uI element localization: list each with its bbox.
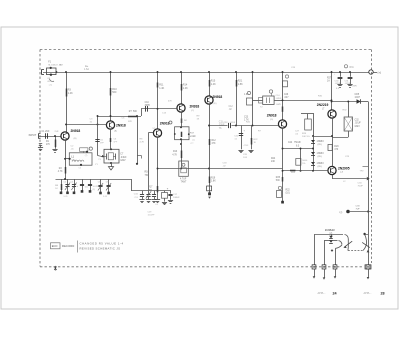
svg-text:APPL -: APPL - [364, 292, 372, 295]
svg-text:R16: R16 [145, 172, 150, 174]
svg-text:C23: C23 [244, 116, 249, 118]
svg-text:(9V): (9V) [318, 144, 322, 146]
svg-text:(.5): (.5) [49, 84, 52, 86]
svg-text:1.4K: 1.4K [211, 83, 216, 86]
svg-text:R22: R22 [286, 189, 291, 191]
svg-text:.02UF: .02UF [230, 122, 236, 124]
svg-text:(3): (3) [93, 189, 96, 191]
svg-text:30PF: 30PF [145, 105, 151, 107]
svg-text:R31: R31 [350, 67, 355, 69]
svg-text:R12: R12 [212, 140, 217, 142]
svg-text:(E): (E) [214, 103, 217, 105]
svg-text:10K 5%: 10K 5% [302, 136, 310, 138]
svg-text:R17: R17 [148, 187, 153, 189]
svg-text:4.7K: 4.7K [58, 171, 63, 173]
svg-text:2N2219: 2N2219 [317, 103, 329, 107]
svg-text:(-): (-) [340, 210, 343, 214]
svg-text:2N918: 2N918 [116, 123, 126, 127]
svg-text:TANT: TANT [181, 181, 187, 184]
svg-text:REVISED SCHEMATIC JS: REVISED SCHEMATIC JS [80, 246, 121, 250]
svg-text:1.4K: 1.4K [68, 92, 73, 95]
svg-text:APPL -: APPL - [318, 292, 326, 295]
svg-text:.02UF: .02UF [345, 83, 351, 85]
svg-text:560: 560 [112, 91, 117, 94]
svg-text:1000PF: 1000PF [148, 214, 156, 216]
svg-text:GMV: GMV [352, 86, 358, 88]
svg-text:(7): (7) [85, 155, 88, 157]
svg-text:GMV: GMV [120, 160, 126, 162]
svg-text:(1): (1) [192, 139, 195, 141]
svg-text:CR5: CR5 [355, 94, 360, 96]
svg-text:INPUT: INPUT [29, 133, 37, 137]
svg-text:2N918: 2N918 [213, 95, 223, 99]
svg-text:1N963: 1N963 [317, 152, 325, 155]
svg-text:(+): (+) [378, 71, 382, 75]
svg-text:2N2905: 2N2905 [338, 167, 350, 171]
svg-text:47K: 47K [212, 143, 217, 145]
svg-text:5%: 5% [302, 163, 305, 165]
svg-text:(9V): (9V) [318, 166, 322, 168]
svg-text:750UF: 750UF [294, 142, 301, 144]
svg-text:R25: R25 [276, 177, 281, 179]
svg-text:.02UF: .02UF [355, 123, 362, 125]
svg-text:RECORD: RECORD [62, 244, 74, 248]
svg-text:28: 28 [381, 291, 385, 295]
svg-text:2N918: 2N918 [190, 104, 200, 108]
svg-text:C12: C12 [229, 106, 234, 108]
svg-text:R23: R23 [291, 172, 296, 174]
svg-text:47K: 47K [168, 101, 172, 103]
svg-text:CHANGED R5 VALUE 1-4: CHANGED R5 VALUE 1-4 [80, 241, 124, 245]
svg-text:100PF: 100PF [93, 186, 100, 188]
svg-text:(D): (D) [270, 119, 273, 121]
svg-text:R27: R27 [327, 78, 332, 80]
svg-text:(9V): (9V) [318, 156, 322, 158]
svg-text:7UF: 7UF [356, 208, 361, 210]
svg-text:C1 2UF: C1 2UF [42, 131, 51, 133]
svg-text:1N963: 1N963 [317, 162, 325, 165]
svg-text:(C): (C) [191, 110, 194, 112]
svg-text:R24: R24 [271, 158, 276, 160]
svg-text:C24: C24 [288, 142, 293, 144]
svg-text:1N4?: 1N4? [355, 97, 361, 99]
svg-text:1.8K: 1.8K [211, 181, 216, 183]
svg-text:1.8K: 1.8K [238, 83, 243, 86]
svg-text:100UF: 100UF [173, 197, 180, 199]
svg-text:C10: C10 [145, 102, 150, 104]
svg-text:2N918: 2N918 [267, 113, 277, 117]
svg-text:5600: 5600 [302, 160, 308, 162]
svg-text:(B): (B) [74, 138, 77, 140]
svg-text:GMV: GMV [355, 126, 361, 128]
svg-text:R13: R13 [173, 151, 178, 153]
svg-text:ECO: ECO [52, 244, 58, 248]
svg-text:.02UF: .02UF [276, 98, 283, 100]
svg-text:1N963: 1N963 [317, 140, 325, 143]
svg-text:70UF: 70UF [358, 185, 364, 187]
svg-text:47UF: 47UF [244, 145, 250, 147]
svg-text:4.7K: 4.7K [172, 154, 177, 156]
svg-text:R29: R29 [334, 146, 339, 148]
svg-text:C32: C32 [355, 119, 360, 121]
svg-text:(10): (10) [286, 193, 290, 195]
svg-text:.047: .047 [284, 97, 289, 99]
svg-text:1.4K: 1.4K [183, 87, 188, 90]
svg-text:1UF: 1UF [243, 157, 248, 159]
svg-text:R19: R19 [211, 177, 216, 179]
svg-text:1N3643: 1N3643 [325, 228, 335, 232]
svg-text:2UF: 2UF [55, 131, 60, 133]
svg-text:4.7UF: 4.7UF [180, 178, 187, 180]
svg-text:.02UF: .02UF [335, 83, 341, 85]
svg-text:2N918: 2N918 [160, 122, 170, 126]
svg-text:4.7K: 4.7K [140, 141, 145, 143]
svg-text:(A): (A) [114, 130, 117, 133]
svg-text:2N918: 2N918 [71, 129, 81, 133]
svg-text:.04UF: .04UF [120, 157, 127, 159]
svg-text:5PF: 5PF [128, 121, 133, 123]
svg-text:1.6A: 1.6A [84, 68, 89, 71]
svg-text:1.4K: 1.4K [191, 136, 196, 138]
svg-text:GMV: GMV [276, 104, 282, 106]
svg-text:C26: C26 [284, 94, 289, 96]
svg-text:1A: 1A [327, 80, 330, 83]
svg-text:1.4K: 1.4K [159, 87, 164, 90]
